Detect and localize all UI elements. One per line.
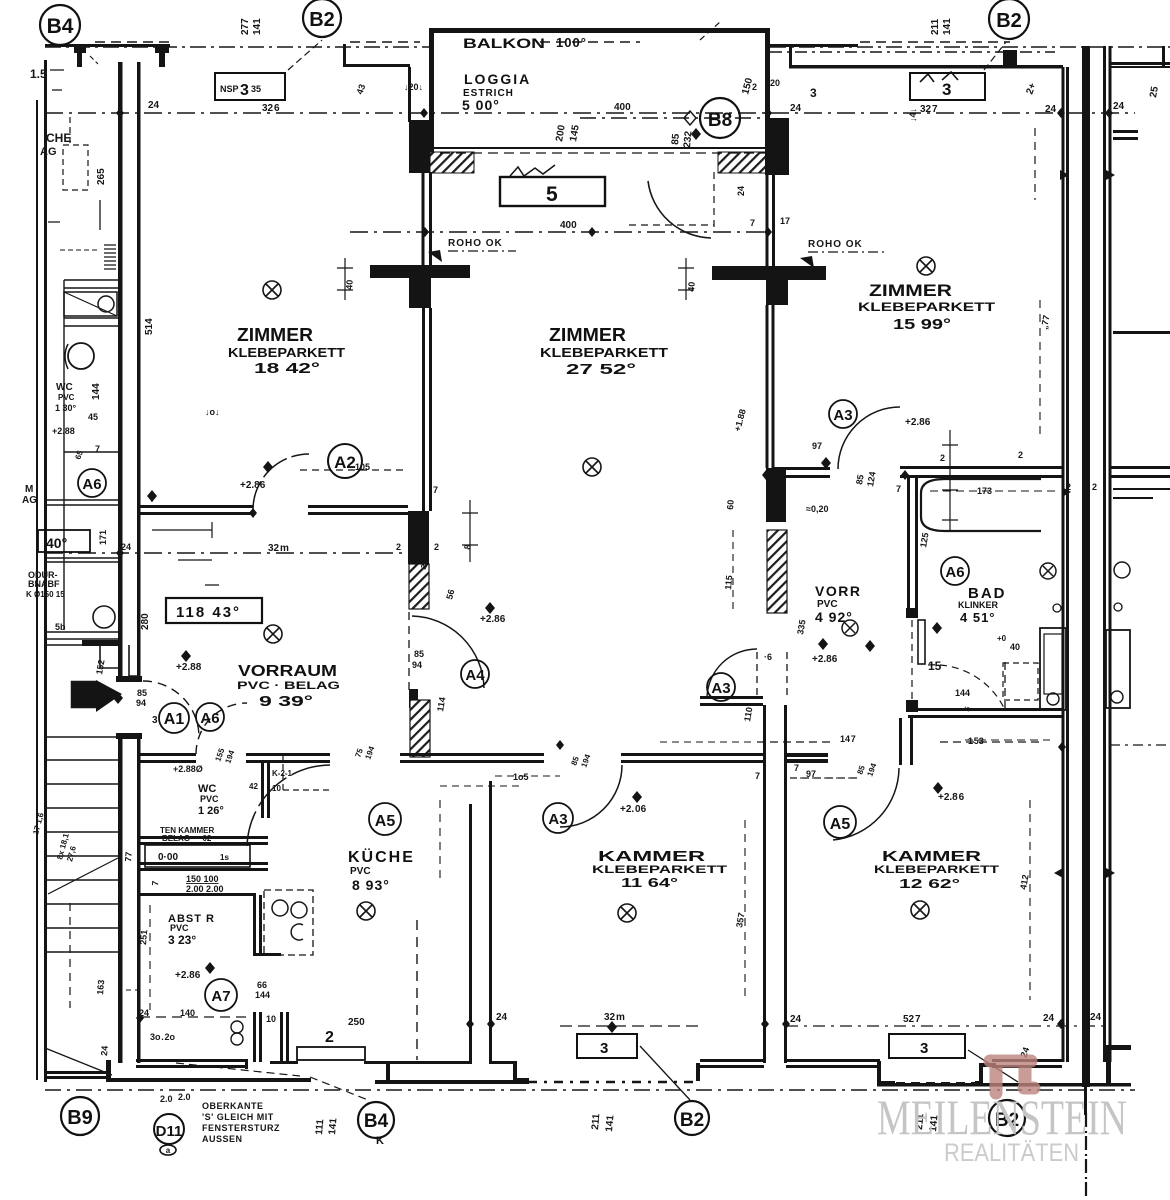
svg-text:1 30°: 1 30° bbox=[55, 403, 77, 413]
svg-text:10: 10 bbox=[266, 1014, 276, 1024]
svg-text:↓20↓: ↓20↓ bbox=[404, 82, 423, 92]
wall right edge neighbour bath top bbox=[1110, 466, 1170, 469]
bad door leaf bbox=[918, 620, 925, 664]
wire dim vertical 281 kueche bbox=[439, 800, 441, 880]
svg-text:211: 211 bbox=[590, 1113, 602, 1130]
svg-text:211: 211 bbox=[930, 18, 941, 35]
wall bad door jamb bottom bbox=[906, 700, 918, 712]
window2 sill bbox=[297, 1029, 365, 1060]
wall bottom outer left bbox=[45, 1071, 108, 1074]
svg-text:77: 77 bbox=[123, 851, 134, 862]
left column sink room diagonal bbox=[64, 292, 117, 316]
node A3 vorr bbox=[707, 673, 735, 701]
box 118 43 bbox=[166, 598, 262, 623]
svg-text:+0: +0 bbox=[997, 634, 1007, 643]
svg-text:144: 144 bbox=[91, 383, 102, 400]
wall left vertical below entrance (outer) bbox=[118, 733, 123, 1063]
svg-text:20: 20 bbox=[770, 78, 780, 88]
wire dashed door a4 bbox=[408, 612, 410, 692]
wire dim vertical 357 kammer1 bbox=[744, 820, 746, 1000]
roho arrow right bbox=[800, 256, 814, 268]
svg-text:24: 24 bbox=[1090, 1012, 1102, 1023]
wall entrance jamb bottom bbox=[116, 733, 142, 739]
left column corner step to entrance bbox=[100, 645, 140, 676]
wall bottom kueche-kammer continuation bbox=[489, 1061, 516, 1064]
wall black below T-bar right bbox=[766, 280, 788, 305]
svg-text:32 6: 32 6 bbox=[262, 103, 280, 114]
wall neighbour right lower fragment bbox=[1113, 488, 1170, 490]
svg-text:'S' GLEICH MIT: 'S' GLEICH MIT bbox=[202, 1112, 274, 1122]
left column small rooms lines bbox=[45, 280, 118, 645]
wall bottom outer corner bbox=[106, 1060, 111, 1078]
kueche sink circles bbox=[272, 900, 288, 916]
svg-text:4 92°: 4 92° bbox=[815, 609, 853, 625]
door arc A3 vorr-zimmer2 bbox=[707, 649, 757, 697]
svg-text:WC: WC bbox=[56, 382, 73, 393]
svg-text:173: 173 bbox=[977, 486, 992, 496]
svg-text:9 39°: 9 39° bbox=[259, 693, 313, 710]
wire dashed right neighbour y745 bbox=[1110, 744, 1170, 746]
svg-text:A6: A6 bbox=[82, 476, 101, 493]
wall left vertical main (inner line) bbox=[137, 62, 141, 682]
svg-text:REALITÄTEN: REALITÄTEN bbox=[944, 1139, 1079, 1167]
box 40 bbox=[38, 530, 90, 552]
svg-text:3: 3 bbox=[600, 1040, 608, 1057]
wire bottom right wobbly vertical bbox=[1085, 1113, 1087, 1200]
svg-text:+2.88Ø: +2.88Ø bbox=[173, 764, 203, 774]
svg-text:B8: B8 bbox=[708, 110, 732, 131]
svg-text:B9: B9 bbox=[67, 1107, 93, 1129]
svg-text:+2.88: +2.88 bbox=[52, 426, 75, 436]
right wall complex thin line 4 bbox=[1109, 46, 1112, 1062]
svg-text:↓4↓: ↓4↓ bbox=[908, 108, 918, 122]
svg-text:24: 24 bbox=[148, 100, 160, 111]
wall bottom outer main bbox=[106, 1078, 311, 1082]
wall entrance jamb top bbox=[116, 676, 142, 682]
svg-text:5: 5 bbox=[546, 183, 558, 206]
svg-text:105: 105 bbox=[355, 462, 370, 472]
entrance arrow square bbox=[72, 682, 96, 707]
svg-text:24: 24 bbox=[1043, 1013, 1055, 1024]
svg-text:144: 144 bbox=[955, 688, 970, 698]
entrance arrow head bbox=[96, 680, 122, 712]
svg-text:18 42°: 18 42° bbox=[254, 360, 320, 377]
svg-text:3o . 2o: 3o . 2o bbox=[150, 1032, 176, 1042]
svg-text:2.0: 2.0 bbox=[160, 1094, 173, 1104]
svg-text:ZIMMER: ZIMMER bbox=[869, 281, 952, 300]
svg-text:27 52°: 27 52° bbox=[566, 361, 636, 378]
wall T-bar left bbox=[370, 265, 470, 278]
wall top outer right segment bbox=[768, 44, 858, 47]
svg-text:10: 10 bbox=[272, 784, 281, 793]
ARCS bbox=[143, 22, 1004, 846]
wire dashed line bad boiler bbox=[660, 741, 756, 743]
svg-text:7: 7 bbox=[750, 218, 755, 228]
svg-text:141: 141 bbox=[327, 1117, 339, 1135]
box nsp335 bbox=[215, 73, 285, 100]
svg-text:0·00: 0·00 bbox=[158, 852, 178, 863]
wall wc bottom lines bbox=[138, 836, 268, 839]
svg-text:1.5: 1.5 bbox=[30, 67, 47, 81]
svg-text:94: 94 bbox=[412, 660, 422, 670]
wall left vertical below entrance (inner) bbox=[137, 733, 141, 1063]
node D11 bbox=[154, 1114, 184, 1144]
wall neighbour right mid fragment bbox=[1113, 331, 1170, 334]
symbol circle-x zimmer3 bbox=[917, 257, 935, 275]
svg-text:AUSSEN: AUSSEN bbox=[202, 1134, 243, 1144]
node B2 bottom right bbox=[989, 1100, 1025, 1136]
wall zimmer1 / vorraum horizontal bbox=[140, 505, 253, 508]
svg-text:2: 2 bbox=[396, 542, 401, 552]
svg-text:K-2-1: K-2-1 bbox=[272, 769, 293, 778]
svg-text:PVC: PVC bbox=[200, 794, 219, 804]
svg-text:A2: A2 bbox=[334, 453, 356, 472]
wire dashed A2 door arc line bbox=[300, 469, 408, 471]
wire dimension line y553 bbox=[45, 552, 410, 554]
wire dashed vertical right top bbox=[1034, 128, 1036, 200]
wire top dash-dot second bbox=[770, 51, 1055, 53]
svg-text:2: 2 bbox=[940, 453, 945, 463]
wire stair diagonal bottom bbox=[45, 1048, 112, 1075]
wall right below bottom bbox=[1084, 1087, 1087, 1115]
wall abstr right vertical bbox=[253, 895, 256, 955]
svg-text:3: 3 bbox=[240, 82, 249, 99]
node A5 kammer2 bbox=[824, 806, 856, 838]
wall bottom kammer2 bbox=[786, 1059, 880, 1062]
svg-text:7: 7 bbox=[150, 494, 155, 504]
node A3 bad door bbox=[829, 400, 857, 428]
svg-text:97: 97 bbox=[812, 441, 822, 451]
wire dim 105 kammer1 top bbox=[495, 775, 560, 777]
node B4 bottom bbox=[358, 1102, 394, 1138]
svg-text:KLINKER: KLINKER bbox=[958, 600, 998, 610]
wire leader box3 to b2 bottom middle bbox=[640, 1046, 690, 1100]
svg-text:ZIMMER: ZIMMER bbox=[549, 325, 626, 345]
svg-text:15 99°: 15 99° bbox=[893, 316, 951, 333]
svg-text:A5: A5 bbox=[375, 813, 396, 830]
svg-text:5b: 5b bbox=[55, 622, 66, 632]
svg-text:2: 2 bbox=[434, 542, 439, 552]
balcony left wall bbox=[429, 28, 434, 152]
wall top-left outer bbox=[45, 44, 170, 47]
door arc bad interior dashed bbox=[928, 665, 1004, 708]
wire left outer stair wall B bbox=[44, 60, 47, 1082]
wall right edge top fragment bbox=[1110, 62, 1170, 65]
wall black pier left of balcony bbox=[409, 120, 430, 173]
wire bottom wall dashed middle bbox=[528, 1081, 697, 1084]
svg-text:24: 24 bbox=[1113, 101, 1125, 112]
svg-text:32 m: 32 m bbox=[268, 543, 289, 554]
svg-text:a: a bbox=[166, 1146, 171, 1155]
wire dim ticks top kueche area bbox=[440, 785, 520, 787]
svg-text:KAMMER: KAMMER bbox=[882, 848, 981, 865]
svg-text:280: 280 bbox=[140, 613, 151, 630]
wire dashed balcony door opening bbox=[629, 172, 714, 228]
wall stub vorr to bad door bbox=[773, 467, 830, 470]
svg-text:FENSTERSTURZ: FENSTERSTURZ bbox=[202, 1123, 280, 1133]
svg-text:40: 40 bbox=[344, 279, 355, 290]
svg-text:LOGGIA: LOGGIA bbox=[464, 71, 531, 87]
door arc A5 kammer2 bbox=[833, 768, 899, 840]
svg-text:5 00°: 5 00° bbox=[462, 97, 500, 113]
svg-text:KLEBEPARKETT: KLEBEPARKETT bbox=[858, 300, 996, 314]
wire dashed left column line bbox=[69, 117, 71, 145]
svg-text:42: 42 bbox=[249, 782, 258, 791]
door arc A3 bad-vorr bbox=[838, 407, 900, 469]
svg-text:24: 24 bbox=[790, 1014, 802, 1025]
svg-text:141: 141 bbox=[604, 1114, 616, 1132]
node B2 bottom middle bbox=[675, 1101, 709, 1135]
radiator marks left wall bbox=[104, 245, 116, 269]
svg-text:1 26°: 1 26° bbox=[198, 805, 224, 817]
svg-text:+2.86: +2.86 bbox=[175, 970, 201, 981]
svg-text:8 93°: 8 93° bbox=[352, 877, 390, 893]
svg-text:250: 250 bbox=[348, 1017, 365, 1028]
svg-text:AG: AG bbox=[40, 146, 57, 158]
svg-text:A3: A3 bbox=[833, 407, 852, 424]
svg-text:A5: A5 bbox=[830, 816, 851, 833]
svg-text:+2.86: +2.86 bbox=[905, 417, 931, 428]
svg-text:D11: D11 bbox=[156, 1123, 183, 1140]
wall bad door jamb top bbox=[906, 608, 918, 618]
wall bottom kammer1 step corner bbox=[696, 1063, 700, 1081]
svg-text:OBERKANTE: OBERKANTE bbox=[202, 1101, 264, 1111]
box 0.00 bbox=[145, 845, 250, 867]
right wall complex thin line 2 bbox=[1066, 67, 1069, 1062]
node B2 top right bbox=[989, 0, 1029, 39]
svg-text:KLEBEPARKETT: KLEBEPARKETT bbox=[874, 864, 999, 876]
wall kueche top right segment bbox=[400, 753, 544, 756]
door arc A4 bbox=[412, 616, 484, 688]
wire scribble above window5 bbox=[510, 165, 555, 176]
svg-text:150 100: 150 100 bbox=[186, 874, 219, 884]
kueche boiler bbox=[231, 1021, 243, 1033]
wall pillar top-left 1 bbox=[74, 47, 86, 67]
door arc A2 bbox=[253, 454, 309, 510]
svg-text:3: 3 bbox=[942, 80, 951, 99]
svg-text:AG: AG bbox=[22, 495, 37, 506]
symbol circle-x vorraum bbox=[264, 625, 282, 643]
svg-text:↓o↓: ↓o↓ bbox=[205, 407, 220, 417]
svg-text:140: 140 bbox=[180, 1008, 195, 1018]
right wall complex thin line 3 bbox=[1103, 46, 1106, 1062]
svg-text:MEILENSTEIN: MEILENSTEIN bbox=[877, 1089, 1127, 1145]
svg-text:B4: B4 bbox=[364, 1111, 389, 1132]
left column black bit bbox=[82, 640, 118, 646]
wire top dash-dot building line bbox=[45, 46, 1170, 48]
wall bottom right segment bbox=[992, 1059, 1062, 1062]
svg-text:66: 66 bbox=[257, 980, 267, 990]
wall black pier zimmer1 SE bbox=[408, 511, 429, 564]
svg-text:514: 514 bbox=[144, 318, 155, 335]
node B9 bbox=[61, 1097, 99, 1135]
svg-text:PVC: PVC bbox=[170, 923, 189, 933]
wall vorraum bottom (vorr side) bbox=[700, 696, 763, 699]
svg-text:232: 232 bbox=[682, 130, 694, 148]
svg-text:85: 85 bbox=[854, 474, 866, 486]
svg-text:B2: B2 bbox=[309, 9, 335, 31]
svg-text:2: 2 bbox=[325, 1029, 334, 1046]
left column sink bottom bbox=[93, 606, 115, 628]
svg-text:400: 400 bbox=[560, 220, 577, 231]
FIXTURES bbox=[45, 108, 1130, 1045]
svg-text:KÜCHE: KÜCHE bbox=[348, 847, 415, 866]
svg-text:400: 400 bbox=[614, 102, 631, 113]
wall bottom kammer2 step up bbox=[975, 1063, 996, 1085]
svg-text:A7: A7 bbox=[211, 988, 230, 1005]
svg-text:45: 45 bbox=[88, 412, 98, 422]
wire dashed vorr bottom dim bbox=[790, 777, 862, 779]
wire dashed kammer2 153 top bbox=[965, 739, 1050, 741]
tick cluster zimmer3 left bbox=[942, 430, 958, 530]
svg-text:11 64°: 11 64° bbox=[621, 875, 678, 890]
node B8 bbox=[700, 98, 740, 138]
svg-text:85: 85 bbox=[414, 649, 424, 659]
wall T-bar right bbox=[712, 266, 826, 280]
svg-text:3: 3 bbox=[920, 1040, 928, 1057]
wall hatched pier vorr W bbox=[767, 530, 787, 613]
tick cluster a4 side bbox=[152, 500, 478, 585]
wire dim vertical zimmer3 77 bbox=[1039, 300, 1041, 440]
svg-text:2: 2 bbox=[1092, 482, 1098, 492]
balcony bottom sill line bbox=[429, 147, 770, 149]
node B2 top left bbox=[303, 0, 341, 37]
door arc A1 entrance bbox=[143, 681, 199, 737]
tick cluster right pier bbox=[678, 258, 694, 300]
svg-text:ZIMMER: ZIMMER bbox=[237, 325, 313, 345]
wire top dash extra segments bbox=[95, 41, 1010, 43]
svg-text:7: 7 bbox=[150, 880, 160, 886]
svg-text:118 43°: 118 43° bbox=[176, 604, 241, 621]
svg-text:85: 85 bbox=[137, 688, 147, 698]
wall bad left upper bbox=[907, 478, 910, 610]
stair treads bbox=[45, 737, 118, 952]
svg-text:7: 7 bbox=[794, 763, 799, 773]
wall bottom kueche inner bbox=[270, 1061, 298, 1064]
svg-text:A1: A1 bbox=[164, 711, 185, 728]
svg-text:15: 15 bbox=[928, 659, 942, 673]
wall bottom kammer1 left end bbox=[386, 1063, 390, 1081]
svg-text:163: 163 bbox=[95, 979, 106, 995]
svg-text:265: 265 bbox=[96, 168, 107, 185]
svg-text:3 23°: 3 23° bbox=[168, 933, 196, 947]
wc toilet left column bbox=[68, 343, 94, 369]
svg-text:NSP: NSP bbox=[220, 84, 239, 94]
symbol circle-x zimmer2 bbox=[583, 458, 601, 476]
svg-text:12 62°: 12 62° bbox=[899, 876, 960, 891]
loggia dim marker bbox=[684, 111, 696, 125]
box window3 bottom middle bbox=[577, 1034, 637, 1058]
wire dashed vertical kueche bbox=[416, 920, 418, 1060]
svg-text:24: 24 bbox=[121, 542, 131, 552]
svg-text:1s: 1s bbox=[220, 853, 229, 862]
roho arrow left bbox=[428, 250, 442, 262]
wall bottom right corner piece bbox=[1106, 1045, 1131, 1085]
wall between zimmer1 and zimmer2 mid bbox=[422, 308, 425, 511]
svg-text:+2.88: +2.88 bbox=[176, 662, 202, 673]
wall bottom abstr door step bbox=[245, 1059, 248, 1069]
WATERMARK bbox=[877, 1061, 1127, 1167]
wall abstr/kueche stub bbox=[253, 953, 281, 956]
symbol circle-o neighbour bbox=[1114, 562, 1130, 578]
svg-text:KAMMER: KAMMER bbox=[598, 848, 705, 865]
svg-text:B2: B2 bbox=[680, 1110, 704, 1131]
tick cluster left pier bbox=[337, 258, 353, 300]
wire dashed bad shower bbox=[757, 741, 1040, 743]
svg-text:·6: ·6 bbox=[764, 652, 772, 662]
wire dashed bad door bbox=[911, 620, 913, 700]
wire left column filler marks bbox=[48, 70, 100, 230]
wall kueche/kammer1 vertical bbox=[469, 804, 472, 1063]
wall abstr right lower vertical bbox=[253, 1012, 256, 1062]
svg-text:KLEBEPARKETT: KLEBEPARKETT bbox=[540, 346, 668, 360]
wall vorraum/wc horizontal left bbox=[138, 753, 196, 756]
svg-text:7: 7 bbox=[755, 771, 760, 781]
svg-text:2.00 2.00: 2.00 2.00 bbox=[186, 884, 224, 894]
svg-text:97: 97 bbox=[806, 769, 816, 779]
box window3 bottom right bbox=[889, 1034, 965, 1058]
wire left outer stair wall A bbox=[36, 100, 38, 1080]
wire dim vertical 115 bbox=[732, 530, 734, 610]
watermark logo pi bbox=[990, 1061, 1034, 1093]
wall bottom abstr bbox=[136, 1059, 247, 1062]
wire dimension line y113 bbox=[45, 112, 1135, 114]
svg-text:141: 141 bbox=[942, 18, 953, 35]
svg-text:24: 24 bbox=[1045, 104, 1057, 115]
symbol circle-x kammer2 bbox=[911, 901, 929, 919]
wire dashed 173 dim bad bbox=[930, 490, 1055, 492]
svg-text:ROHO OK: ROHO OK bbox=[808, 239, 863, 250]
svg-text:32 7: 32 7 bbox=[920, 104, 938, 115]
wall bottom outer below window2 bbox=[375, 1080, 525, 1084]
svg-text:32 m: 32 m bbox=[604, 1012, 625, 1023]
svg-text:K Ø150 15: K Ø150 15 bbox=[26, 590, 65, 599]
node A2 bbox=[328, 444, 362, 478]
wall niche lines bbox=[138, 862, 268, 865]
svg-text:B4: B4 bbox=[47, 15, 74, 38]
wire loggia lower dash bbox=[440, 152, 768, 154]
svg-text:KLEBEPARKETT: KLEBEPARKETT bbox=[228, 346, 345, 360]
svg-text:141: 141 bbox=[252, 18, 263, 35]
wire dashed vertical stairs bbox=[69, 903, 71, 1008]
wall between zimmer2 and right rooms upper bbox=[766, 175, 769, 266]
wall between kammers bbox=[763, 705, 766, 1063]
node A5 kueche bbox=[369, 803, 401, 835]
window sill hatched left of balcony doorway bbox=[430, 152, 474, 173]
door arc A3 kammer1 bbox=[560, 765, 622, 827]
wall bottom kammer2 step down bbox=[877, 1061, 895, 1085]
wall opening triangles right wall bbox=[1054, 170, 1115, 878]
wire dimension line 400 below window5 bbox=[350, 231, 768, 233]
svg-text:+2.86: +2.86 bbox=[812, 654, 838, 665]
svg-text:+2.86: +2.86 bbox=[480, 614, 506, 625]
svg-text:BNABF: BNABF bbox=[28, 579, 60, 589]
node A4 bbox=[461, 660, 489, 688]
node B4 top bbox=[40, 5, 80, 45]
door arc A6 wc bbox=[196, 703, 247, 754]
svg-text:ROHO OK: ROHO OK bbox=[448, 238, 503, 249]
wire dimension line bottom y1090 bbox=[45, 1089, 1135, 1091]
wire neighbour fixture dashed rect bbox=[1003, 663, 1038, 700]
svg-text:115: 115 bbox=[723, 575, 734, 590]
wire bottom dim line kammer1 bbox=[560, 1025, 700, 1027]
svg-text:PVC: PVC bbox=[350, 866, 371, 877]
wall wc right vertical bbox=[261, 763, 264, 818]
right wall complex thick black bbox=[1082, 46, 1090, 1087]
wall black pier small vorraum bbox=[409, 689, 418, 708]
node A7 bbox=[205, 979, 237, 1011]
svg-text:2: 2 bbox=[1066, 482, 1072, 492]
